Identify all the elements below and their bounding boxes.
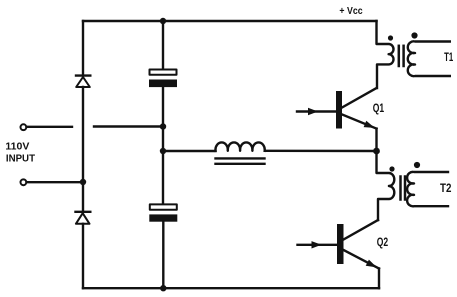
capacitor C2 xyxy=(149,204,177,221)
wire left column upper xyxy=(82,21,84,75)
wire bottom bus xyxy=(83,287,379,289)
node bottom bus / C2 junction xyxy=(160,285,166,291)
transistor Q1 xyxy=(297,88,377,129)
transformer T2 primary xyxy=(377,151,395,220)
T1 primary phase dot xyxy=(388,35,393,40)
transformer T1 core xyxy=(399,46,404,66)
svg-text:INPUT: INPUT xyxy=(6,152,36,164)
transformer T2 core xyxy=(401,177,406,200)
transformer T1 primary xyxy=(377,21,394,88)
terminal: bottom input xyxy=(21,179,27,185)
svg-text:T2: T2 xyxy=(440,181,452,195)
transistor Q2 xyxy=(298,220,380,269)
wire top bus xyxy=(83,20,377,22)
node cap column / center line junction xyxy=(160,148,166,154)
wire Q2 emitter down xyxy=(378,269,380,289)
T1 secondary phase dot xyxy=(411,32,417,38)
wire bottom input xyxy=(27,181,83,183)
node top input / cap column junction xyxy=(160,123,166,129)
terminal: top input xyxy=(21,124,27,130)
wire capacitor column lower xyxy=(162,222,164,289)
node bottom-input junction xyxy=(80,179,86,185)
transformer T2 secondary xyxy=(407,172,448,206)
transformer T1 secondary xyxy=(408,41,450,76)
wire center line right xyxy=(265,150,377,153)
node top bus / C1 junction xyxy=(160,18,166,24)
svg-text:110V: 110V xyxy=(5,140,29,152)
T2 primary phase dot xyxy=(389,166,394,171)
diode D1 xyxy=(76,76,90,87)
svg-text:Q1: Q1 xyxy=(373,101,385,115)
capacitor C1 xyxy=(149,70,177,88)
T2 secondary phase dot xyxy=(414,162,420,168)
node center line / Q1 emitter / T2 junction xyxy=(373,148,380,155)
wire Q1 emitter to node xyxy=(375,129,377,151)
wire capacitor column middle xyxy=(162,87,164,204)
svg-text:T1: T1 xyxy=(444,50,453,64)
wire left column middle xyxy=(82,87,84,211)
inductor L1 xyxy=(215,142,264,163)
svg-text:Q2: Q2 xyxy=(377,235,389,249)
svg-text:+ Vcc: + Vcc xyxy=(339,5,362,17)
wire left column lower xyxy=(82,224,84,288)
wire center line left xyxy=(163,150,216,152)
wire capacitor column upper xyxy=(162,21,164,69)
diode D2 xyxy=(76,212,91,224)
wire top input right segment (crossover gap) xyxy=(94,125,163,127)
wire top input left segment xyxy=(27,126,72,128)
label 110V INPUT xyxy=(5,140,35,164)
